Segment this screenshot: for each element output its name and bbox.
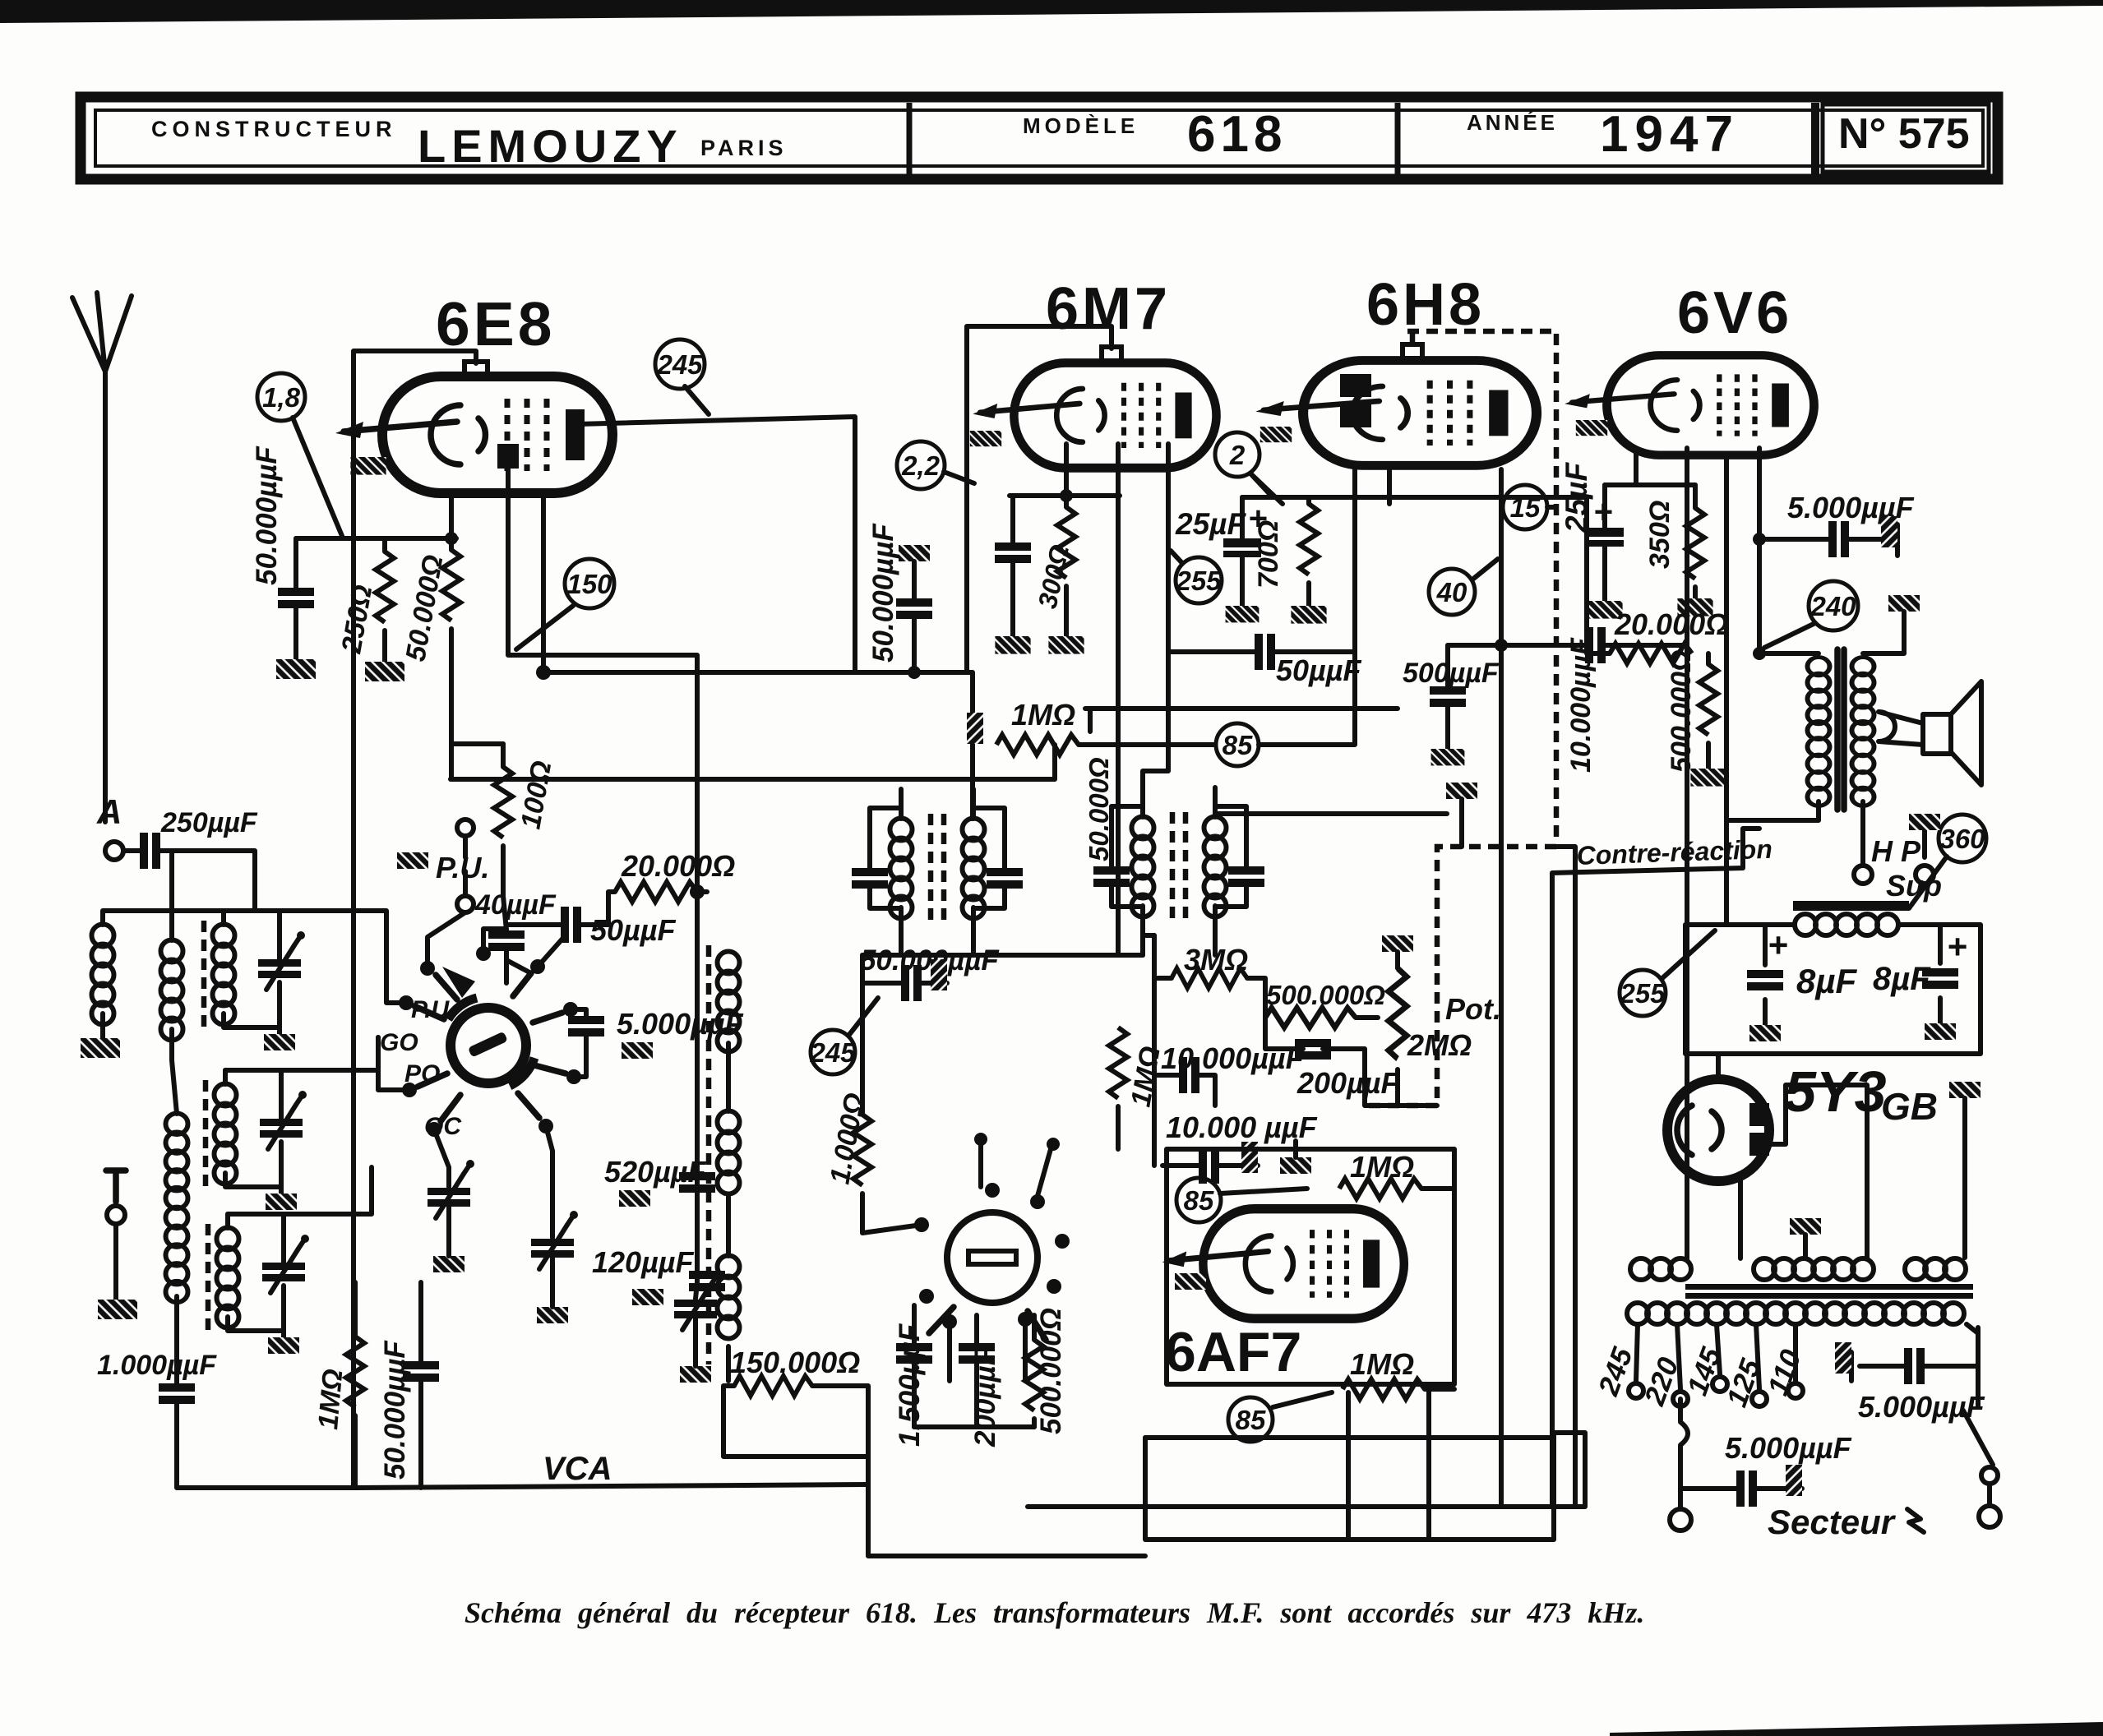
svg-text:85: 85 (1223, 730, 1253, 760)
+B wiring box (1685, 925, 1981, 1054)
wire screen bus y=818 (855, 672, 973, 819)
wire dashed box corner to coupling (1556, 847, 1575, 1507)
tube 6H8 diode plates (1340, 374, 1371, 397)
wire 6M7 plate to IFT2 (1143, 444, 1168, 787)
transformer right wire to switch (1967, 1324, 1978, 1366)
tube 6M7 (973, 363, 1216, 469)
node 255 V marker (1175, 557, 1222, 603)
svg-text:240: 240 (1810, 591, 1856, 621)
svg-text:5.000µµF: 5.000µµF (617, 1007, 744, 1041)
wire heater bus y=948 (451, 745, 1055, 779)
svg-text:2: 2 (1229, 440, 1246, 470)
svg-text:CONSTRUCTEUR: CONSTRUCTEUR (151, 117, 397, 141)
capacitor 50µµF coupling to 6H8 diode (1168, 649, 1355, 654)
svg-text:5.000µµF: 5.000µµF (1725, 1431, 1852, 1465)
IFT2 side capacitors (1093, 866, 1130, 887)
resistor 20.000Ω horizontal (615, 882, 697, 902)
svg-text:10.000µµF: 10.000µµF (1565, 637, 1597, 773)
resistor 1MΩ (6AF7 anode) (1339, 1179, 1421, 1198)
wire bottom rails extra (1145, 1384, 1554, 1540)
resistor 500.000Ω horizontal (1265, 1008, 1356, 1027)
trimmer under switch (428, 1160, 474, 1218)
band coil 3 with trimmer (208, 1214, 309, 1354)
svg-text:50.000µµF: 50.000µµF (860, 944, 1000, 976)
node line under 6E8 (296, 536, 456, 541)
node 15 V marker (1503, 485, 1547, 529)
svg-text:700Ω: 700Ω (1253, 520, 1284, 589)
filter choke (1793, 901, 1909, 935)
octal socket of oscillator (914, 1183, 1070, 1340)
svg-text:Pot.: Pot. (1445, 992, 1501, 1026)
speaker (1923, 714, 1951, 754)
wire 2 pointer (1250, 473, 1283, 504)
IFT1 side capacitors (852, 868, 888, 889)
wire osc socket leads (950, 1144, 1051, 1381)
svg-text:A: A (96, 792, 122, 831)
resistor 3MΩ (1172, 968, 1247, 988)
wire 6H8 diode plate lead down to 1MΩ (1259, 469, 1355, 745)
ground above HP terminal (1909, 814, 1940, 830)
svg-text:245: 245 (809, 1037, 856, 1068)
capacitor 50µµF mid (561, 907, 581, 943)
wire 245 pointer (685, 386, 709, 414)
wire 6H8 cathode line (1242, 473, 1587, 497)
resistor 250Ω (376, 552, 394, 622)
second 5.000µµF near switch (1851, 1352, 1978, 1381)
node 360 V marker (1939, 815, 1986, 862)
wire IFT2 secondary bottom down to detector (1143, 935, 1215, 955)
wire 2,2 pointer (944, 472, 974, 483)
node 85 V marker (1216, 723, 1259, 766)
svg-text:H P: H P (1871, 834, 1921, 868)
svg-text:20.000Ω: 20.000Ω (621, 849, 735, 883)
resistor 100Ω (494, 767, 512, 838)
svg-text:500.000Ω: 500.000Ω (1666, 650, 1697, 773)
ground at 6M7 cathode (970, 431, 1001, 446)
tube 6E8 triode plate (497, 444, 519, 469)
svg-text:1MΩ: 1MΩ (1350, 1347, 1414, 1381)
P.U. terminals (457, 820, 474, 836)
svg-text:8µF: 8µF (1796, 962, 1858, 1000)
resistor 50.000Ω (osc grid leak) (442, 550, 460, 621)
svg-text:N° 575: N° 575 (1838, 110, 1970, 158)
dashed shield box around 6H8 (1365, 331, 1556, 1106)
wire contre-reaction run (1552, 829, 1759, 1507)
secondary winding long row (1627, 1303, 1964, 1324)
trimmer right (674, 1272, 721, 1330)
tube 5Y3 (1667, 1079, 1769, 1181)
svg-text:50.000µµF: 50.000µµF (379, 1340, 411, 1480)
wire detector bus (862, 953, 1143, 958)
switch S1 contact ring segments (448, 998, 477, 1019)
wire A to coils (103, 851, 255, 940)
title block (81, 97, 1998, 179)
scan artifact: bottom right black bar (1610, 1722, 2103, 1736)
node 2 V marker (1215, 432, 1259, 477)
wire (100, 1013, 105, 1038)
ground under L1 (81, 1038, 120, 1058)
svg-text:5Y3: 5Y3 (1784, 1060, 1887, 1124)
resistor 300Ω cathode (1057, 507, 1075, 578)
switch S1 index pointer (442, 967, 475, 998)
svg-text:ANNÉE: ANNÉE (1467, 110, 1558, 135)
wire long left vertical + top cap run (354, 351, 476, 1488)
ground under 5Y3 (1790, 1218, 1821, 1235)
svg-text:P.U.: P.U. (436, 851, 489, 884)
trimmer mid (531, 1211, 578, 1269)
ground at 6H8 cathode (1260, 427, 1292, 442)
node 255 V marker (1619, 970, 1666, 1016)
AVC wiring (1154, 935, 1437, 1166)
core (1685, 1284, 1973, 1290)
svg-text:P.U: P.U (411, 996, 450, 1023)
junction 6M7 cathode node (1060, 489, 1073, 502)
svg-text:50.000µµF: 50.000µµF (867, 523, 899, 663)
resistor 20.000Ω horizontal (1610, 644, 1692, 663)
band coil 2 with trimmer (206, 1070, 307, 1210)
wire triode plate lead (508, 469, 697, 1282)
svg-text:1MΩ: 1MΩ (1350, 1150, 1414, 1184)
svg-text:120µµF: 120µµF (592, 1245, 695, 1279)
tube 6H8 top cap (1403, 344, 1422, 358)
svg-text:2,2: 2,2 (901, 450, 941, 481)
wire detector top runs (1085, 709, 1447, 814)
svg-text:6H8: 6H8 (1366, 272, 1485, 338)
IFT1 wiring (870, 789, 1005, 937)
antenna coil L1 (92, 925, 114, 1025)
svg-text:MODÈLE: MODÈLE (1023, 113, 1139, 138)
wire 6V6 screen lead to +B (1724, 454, 1729, 925)
svg-text:85: 85 (1236, 1405, 1266, 1435)
resistor 1MΩ horizontal (996, 735, 1079, 755)
ground at 6AF7 (1175, 1273, 1206, 1290)
svg-text:250µµF: 250µµF (160, 807, 258, 838)
svg-text:85: 85 (1184, 1185, 1214, 1216)
AF coupling line (1448, 643, 1687, 648)
mains taps (1636, 1324, 1796, 1389)
resistor 1MΩ bottom left (346, 1337, 364, 1407)
junction AVC divider (690, 884, 705, 899)
svg-text:360: 360 (1939, 824, 1985, 854)
svg-text:1,8: 1,8 (262, 382, 301, 413)
svg-text:Schéma général du récepteur: Schéma général du récepteur 618. Les tra… (465, 1596, 1644, 1629)
svg-text:6M7: 6M7 (1046, 276, 1171, 342)
resistor 1MΩ (lower) (1343, 1379, 1425, 1399)
svg-text:50.000Ω: 50.000Ω (1084, 757, 1114, 861)
mains switch (1963, 1327, 1993, 1465)
ground at 6V6 cathode (1576, 420, 1607, 436)
resistor 500.000Ω vertical bottom (1025, 1340, 1043, 1410)
svg-text:25µF: 25µF (1175, 507, 1246, 541)
svg-text:+: + (1768, 926, 1788, 964)
ground right of 5Y3 (1949, 1082, 1981, 1098)
capacitor 250µµF (140, 833, 160, 869)
wire cathode lead down through osc grid resistor (451, 496, 503, 779)
svg-text:LEMOUZY: LEMOUZY (418, 120, 683, 172)
wire from cap to VCA line (177, 1403, 356, 1488)
node 240 V marker (1809, 581, 1858, 630)
padder capacitor 520µµF (679, 1172, 715, 1193)
wire 245 pointer mid (848, 998, 878, 1036)
svg-text:40µµF: 40µµF (474, 889, 557, 921)
svg-text:20.000Ω: 20.000Ω (1614, 607, 1728, 641)
svg-text:+: + (1947, 927, 1967, 966)
wire IFT1 secondary bottom to 6M7 grid via cap (901, 937, 973, 955)
svg-text:6AF7: 6AF7 (1165, 1321, 1301, 1383)
potentiometer 2MΩ (1389, 968, 1407, 1059)
node 150 V marker (565, 559, 614, 608)
IFT2 wiring (1112, 787, 1246, 935)
wire 6M7 top cap box (967, 326, 1112, 672)
loop wire under 150.000Ω (723, 1386, 868, 1489)
tube 6E8 top cap (465, 362, 488, 375)
node 85 V marker (1176, 1178, 1221, 1222)
IF transformer 1 (6E8 -> 6M7) (890, 814, 985, 922)
wire 1,8 pointer (293, 418, 342, 536)
5Y3 wiring (1718, 1054, 1867, 1258)
tube 6M7 top cap (1102, 347, 1121, 361)
svg-text:50.000µµF: 50.000µµF (251, 446, 283, 585)
wire 40 pointer (1472, 559, 1498, 579)
tube 6V6 (1565, 355, 1814, 455)
wires from cans to switch area (228, 911, 386, 925)
wire 6H8 cathode lead (1387, 469, 1392, 504)
padder capacitor 5.000µµF (568, 1016, 604, 1037)
svg-text:Secteur: Secteur (1768, 1503, 1897, 1541)
svg-text:618: 618 (1187, 106, 1287, 163)
svg-text:PO: PO (404, 1060, 440, 1087)
ground under T (98, 1300, 137, 1319)
node 40 V marker (1429, 569, 1475, 615)
svg-text:245: 245 (656, 349, 703, 380)
node 245 V marker (809, 1030, 856, 1074)
ground above output transformer (1888, 595, 1920, 612)
wire L2 to L3 (172, 1029, 177, 1114)
ground at 6E8 cathode (350, 457, 386, 475)
antenna coil L3 (long) (166, 1114, 188, 1209)
wire L3 down to 1.000µµF (174, 1296, 179, 1383)
ground 5.000µµF (622, 1042, 653, 1059)
junction 6V6 plate node (1753, 533, 1766, 546)
wire 15 pointer (1547, 505, 1556, 510)
terminal T (106, 1170, 126, 1202)
resistor 150.000Ω (734, 1376, 812, 1396)
svg-text:150.000Ω: 150.000Ω (730, 1346, 860, 1379)
capacitor 200µµF (1295, 1039, 1331, 1060)
wire 150 pointer (516, 606, 573, 649)
capacitor 10.000µµF coupling (1585, 627, 1606, 663)
svg-text:2MΩ: 2MΩ (1407, 1028, 1472, 1062)
capacitor 50.000µµF cathode bypass (995, 542, 1031, 563)
svg-text:1MΩ: 1MΩ (1011, 698, 1075, 732)
antenna coil L2 (161, 940, 183, 1041)
6AF7 box (1167, 1149, 1454, 1384)
wire osc coils to switch (696, 1043, 728, 1381)
svg-text:50µµF: 50µµF (1276, 653, 1362, 687)
node 1,8 V marker (257, 373, 305, 421)
svg-text:PARIS: PARIS (700, 136, 788, 160)
capacitor 40µµF (488, 930, 525, 951)
IF transformer 2 (6M7 -> 6H8) (1132, 812, 1227, 921)
node 85 V marker (1228, 1397, 1273, 1442)
wire switch contacts to padders (378, 912, 586, 1238)
wire 240 pointer (1764, 623, 1815, 648)
svg-text:OC: OC (424, 1113, 462, 1140)
svg-text:520µµF: 520µµF (604, 1155, 707, 1189)
node 2,2 V marker (897, 441, 945, 489)
tube 6H8 (1255, 361, 1537, 466)
wire hexode plate to 245 loop (543, 417, 855, 672)
svg-text:GB: GB (1881, 1085, 1938, 1128)
ground mid right (1446, 783, 1477, 799)
antenna (72, 293, 132, 822)
padder capacitor 120µµF (689, 1271, 725, 1291)
tube 6AF7 (1162, 1209, 1404, 1318)
resistor 1.000Ω osc anode (853, 1115, 871, 1185)
oscillator coil assembly right of switch (709, 945, 740, 1364)
wire 6V6 grid lead long (1685, 448, 1689, 1258)
resistor 500.000Ω vertical (1699, 664, 1717, 735)
mains wiring with 5.000µµF capacitors (1680, 1399, 1802, 1508)
ground small mid (1280, 1157, 1311, 1174)
wire 360 pointer (1909, 856, 1947, 908)
svg-text:1947: 1947 (1600, 106, 1740, 163)
svg-text:6V6: 6V6 (1677, 280, 1792, 346)
svg-text:40: 40 (1436, 577, 1467, 607)
primary windings top (1630, 1258, 1966, 1280)
resistor 1MΩ AVC (1109, 1027, 1127, 1098)
svg-text:VCA: VCA (543, 1451, 612, 1487)
svg-text:255: 255 (1619, 978, 1666, 1009)
wire 6M7 grid3 lead long (1116, 444, 1121, 955)
svg-text:500µµF: 500µµF (1403, 658, 1500, 689)
svg-text:8µF: 8µF (1873, 961, 1931, 997)
junction screen bus (536, 665, 551, 680)
power transformer (1627, 1258, 1973, 1324)
wire cathode to P.U. switch (465, 836, 506, 983)
tube 6E8 (335, 376, 612, 493)
svg-text:200µµF: 200µµF (1296, 1066, 1400, 1100)
wire 255 pointer right (1662, 930, 1715, 978)
wire bottom nested rectangles (868, 1392, 1585, 1556)
svg-text:500.000Ω: 500.000Ω (1266, 980, 1385, 1010)
svg-text:350Ω: 350Ω (1644, 501, 1675, 569)
svg-text:500.000Ω: 500.000Ω (1035, 1308, 1067, 1434)
band coil 1 with trimmer (204, 911, 305, 1050)
svg-text:1MΩ: 1MΩ (312, 1368, 349, 1431)
svg-text:50µµF: 50µµF (590, 913, 677, 947)
svg-text:1.000µµF: 1.000µµF (97, 1350, 217, 1381)
junction 6E8 cathode node (445, 532, 458, 545)
output transformer wiring (1726, 448, 1925, 865)
svg-text:150: 150 (566, 569, 612, 599)
scan artifact: top black bar (0, 0, 2103, 23)
svg-text:GO: GO (380, 1029, 418, 1056)
node 245 V marker (655, 339, 705, 389)
rotary wave-change switch (399, 946, 581, 1137)
connection line 85 to 1MΩ (1220, 1189, 1454, 1407)
svg-text:255: 255 (1175, 566, 1222, 596)
wire 6H8 triode plate long lead down to AF bus (1499, 469, 1504, 1507)
svg-text:6E8: 6E8 (436, 289, 555, 358)
